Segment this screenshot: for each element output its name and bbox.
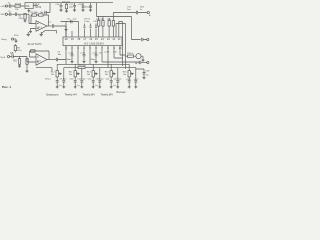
svg-text:A1,A2 TL072: A1,A2 TL072 xyxy=(28,43,43,46)
capacitor C10t xyxy=(95,24,97,28)
capacitor C13 under IC xyxy=(83,50,86,62)
svg-text:10к: 10к xyxy=(69,74,72,76)
ground xyxy=(116,87,119,89)
capacitor C18r right xyxy=(143,69,146,78)
op-amp U A1 box xyxy=(25,3,33,9)
ground xyxy=(110,87,113,89)
wire xyxy=(13,5,25,7)
resistor R21 xyxy=(98,21,100,27)
svg-text:10к: 10к xyxy=(87,74,90,76)
wire xyxy=(14,44,16,52)
wire R2 leads xyxy=(19,57,21,67)
svg-text:14: 14 xyxy=(101,37,104,41)
resistor R10 feedback xyxy=(31,50,36,52)
node output XS4 xyxy=(147,38,149,40)
svg-text:+C17: +C17 xyxy=(134,79,140,81)
node XS2 input terminal xyxy=(5,13,7,15)
terminal GND mid left xyxy=(11,38,13,40)
svg-text:18: 18 xyxy=(77,37,80,41)
ground xyxy=(134,87,137,89)
capacitor R15b xyxy=(116,81,119,87)
wire A2 output chain xyxy=(47,59,56,61)
ground xyxy=(24,19,27,22)
svg-text:470к: 470к xyxy=(17,50,21,52)
wire xyxy=(113,13,132,19)
svg-text:11: 11 xyxy=(118,37,121,41)
svg-text:Тембр ВЧ: Тембр ВЧ xyxy=(101,93,113,97)
wire pot stem and wiper xyxy=(75,64,79,79)
wire xyxy=(136,68,144,69)
wire pin drops to bus xyxy=(78,50,140,68)
wire to XS4 xyxy=(132,17,141,40)
svg-text:A1.1: A1.1 xyxy=(38,26,43,29)
ground xyxy=(29,32,32,34)
potentiometer R12 volume xyxy=(56,71,58,77)
ground xyxy=(80,87,83,89)
resistor R17 xyxy=(78,66,85,68)
svg-text:1мк: 1мк xyxy=(127,9,131,11)
svg-text:+C12: +C12 xyxy=(92,52,98,54)
ground xyxy=(74,87,77,89)
resistor R8 left mid xyxy=(14,46,16,51)
wire A2 feedback xyxy=(30,51,50,60)
ground xyxy=(82,10,85,12)
svg-text:470к: 470к xyxy=(14,35,18,37)
ground xyxy=(73,10,76,12)
svg-text:R18 1к: R18 1к xyxy=(127,53,134,55)
wire xyxy=(7,5,9,7)
svg-text:C13 1мк: C13 1мк xyxy=(96,79,104,81)
svg-text:R2: R2 xyxy=(14,59,18,63)
svg-text:+C18: +C18 xyxy=(78,4,84,6)
wire output A1.1 xyxy=(47,25,52,27)
svg-text:A1.2: A1.2 xyxy=(35,3,40,6)
svg-text:10мк: 10мк xyxy=(67,59,72,61)
svg-text:20: 20 xyxy=(65,37,68,41)
svg-text:10к: 10к xyxy=(51,74,54,76)
svg-text:10к: 10к xyxy=(105,74,108,76)
capacitor C17 xyxy=(73,3,76,10)
wire stub left of volume pot xyxy=(36,68,52,71)
capacitor R14a xyxy=(92,79,95,87)
svg-text:cXS1: cXS1 xyxy=(1,6,7,8)
wire leg xyxy=(135,68,137,81)
wire branch xyxy=(41,3,50,13)
ground xyxy=(92,87,95,89)
svg-text:1мк: 1мк xyxy=(58,54,62,56)
svg-text:Пр.К: Пр.К xyxy=(1,57,6,59)
wire xyxy=(20,57,37,63)
wire xyxy=(14,38,17,40)
ground xyxy=(95,62,98,64)
svg-text:10м: 10м xyxy=(69,7,73,9)
capacitor C3a xyxy=(15,13,25,16)
wire pin1 drop xyxy=(65,46,67,65)
svg-text:10мк: 10мк xyxy=(91,59,96,61)
capacitor C9t xyxy=(90,24,92,28)
resistor R2 xyxy=(18,59,20,65)
capacitor C20 xyxy=(108,21,110,27)
LED HL1 xyxy=(136,54,141,59)
ground xyxy=(18,66,21,68)
svg-text:C15 1мк: C15 1мк xyxy=(114,79,122,81)
svg-text:12: 12 xyxy=(112,37,115,41)
wire R18 HL1 leads xyxy=(126,56,144,60)
svg-text:R5 330к: R5 330к xyxy=(31,12,39,14)
svg-text:17: 17 xyxy=(83,37,86,41)
svg-text:1М: 1М xyxy=(15,9,18,11)
ground xyxy=(27,9,30,13)
wire feedback loop xyxy=(31,15,49,26)
capacitor C8 xyxy=(84,24,86,28)
ground xyxy=(71,62,74,64)
svg-text:100мк: 100мк xyxy=(85,7,91,9)
ground xyxy=(98,87,101,89)
wire leg xyxy=(99,68,101,81)
wire R6 lead xyxy=(26,64,28,71)
node output XS6 xyxy=(147,61,149,63)
capacitor R12a xyxy=(56,79,59,87)
wire leg xyxy=(81,68,83,81)
ground xyxy=(83,62,86,64)
node output XS3 xyxy=(147,11,149,13)
wire bracket mid xyxy=(42,31,57,34)
capacitor C11 under IC xyxy=(71,50,74,62)
op-amp A1.1 input stubs xyxy=(37,24,39,29)
svg-text:C9 1мк: C9 1мк xyxy=(60,79,67,81)
ground stub xyxy=(65,22,68,32)
svg-text:R17 10к: R17 10к xyxy=(78,65,86,67)
svg-text:Тембр ВЧ: Тембр ВЧ xyxy=(83,93,95,97)
svg-text:TL072: TL072 xyxy=(35,7,42,9)
wire leg xyxy=(117,68,119,81)
capacitor R16b xyxy=(134,81,137,87)
capacitor R11a xyxy=(74,79,77,87)
svg-text:A3 LM1036N: A3 LM1036N xyxy=(84,42,104,46)
svg-text:1мк: 1мк xyxy=(73,18,77,20)
ground xyxy=(143,78,146,80)
svg-text:470к: 470к xyxy=(19,18,23,20)
resistor R6 xyxy=(26,59,28,65)
wire xyxy=(33,5,38,7)
wire C20 leads xyxy=(109,18,113,37)
potentiometer R15 treble2 xyxy=(110,71,112,77)
ground xyxy=(26,71,29,73)
capacitor C6t xyxy=(71,20,72,23)
wire R21 R22 leads xyxy=(99,17,103,38)
wire to DA3 xyxy=(65,26,67,37)
svg-text:10к: 10к xyxy=(123,74,126,76)
resistor R1 xyxy=(15,5,20,7)
wire pin18 top xyxy=(61,21,79,23)
IC top pin stubs xyxy=(66,22,96,38)
op-amp A2.1 xyxy=(36,54,47,65)
svg-text:Громкость: Громкость xyxy=(46,93,59,97)
ground xyxy=(56,87,59,89)
ground xyxy=(60,10,63,12)
svg-text:C8 C9: C8 C9 xyxy=(84,18,91,20)
svg-text:VD1,2: VD1,2 xyxy=(45,79,52,81)
IC bottom pin stubs xyxy=(66,46,120,50)
svg-text:0,1мк: 0,1мк xyxy=(84,21,89,23)
capacitor C7 xyxy=(52,24,66,27)
resistor R18 xyxy=(128,55,134,57)
wire pot stem and wiper xyxy=(111,64,115,79)
wire pot stem and wiper xyxy=(57,64,61,79)
capacitor C16 xyxy=(60,3,63,10)
ground xyxy=(62,87,65,89)
capacitor C4 xyxy=(56,58,66,61)
wire bus right side xyxy=(123,22,126,70)
svg-text:C11 1мк: C11 1мк xyxy=(78,79,86,81)
wire pot stem and wiper xyxy=(129,64,133,79)
svg-text:Вход: Вход xyxy=(2,39,8,41)
resistor R22 xyxy=(102,21,104,27)
capacitor R12b xyxy=(62,81,65,87)
ground top B xyxy=(40,32,43,36)
resistor R5 feedback xyxy=(32,14,36,16)
resistor R4 xyxy=(24,14,26,20)
capacitor C5a xyxy=(44,11,46,14)
wire xyxy=(25,14,36,23)
wire R20 leads xyxy=(66,3,68,11)
ground top A xyxy=(27,32,30,36)
op-amp A1.1 xyxy=(36,21,47,31)
wire outputs right xyxy=(116,22,126,38)
capacitor C3 feedback xyxy=(39,14,43,16)
capacitor C5 xyxy=(10,55,20,58)
IC DA3 LM1036N box xyxy=(63,37,122,46)
potentiometer R16 balance xyxy=(128,71,130,77)
svg-text:1к: 1к xyxy=(140,9,142,11)
node XS1 input terminal xyxy=(5,5,7,7)
svg-text:R1 1М: R1 1М xyxy=(15,3,21,5)
capacitor C19t xyxy=(89,3,92,10)
capacitor C1 xyxy=(10,4,14,7)
capacitor R16a xyxy=(128,79,131,87)
op-amp A2.1 input stubs xyxy=(37,57,39,62)
resistor R20 xyxy=(65,4,67,9)
svg-text:R21 R22: R21 R22 xyxy=(96,19,105,21)
svg-text:Рис. 1: Рис. 1 xyxy=(2,85,11,89)
wire pot stem bus xyxy=(57,63,129,65)
capacitor R14b xyxy=(98,81,101,87)
capacitor R15a xyxy=(110,79,113,87)
svg-text:Тембр НЧ: Тембр НЧ xyxy=(65,93,78,97)
svg-text:A2.1: A2.1 xyxy=(37,60,42,63)
ground xyxy=(15,39,18,43)
wire output row bottom right xyxy=(140,61,147,64)
svg-text:+C16: +C16 xyxy=(126,79,132,81)
ground xyxy=(142,60,145,62)
capacitor C19o xyxy=(132,11,147,14)
svg-text:+C11: +C11 xyxy=(80,52,86,54)
wire xyxy=(31,29,37,32)
svg-text:16: 16 xyxy=(89,37,92,41)
ground xyxy=(65,11,68,13)
wire right top xyxy=(97,3,132,17)
wire top power rail xyxy=(33,2,113,4)
ground xyxy=(89,10,92,12)
svg-text:+C10: +C10 xyxy=(68,52,74,54)
svg-text:Баланс: Баланс xyxy=(117,90,127,94)
capacitor C19b under IC xyxy=(95,50,98,62)
svg-text:DA: DA xyxy=(26,5,30,8)
node input XS5 terminal xyxy=(7,55,9,57)
wire xyxy=(13,13,15,15)
capacitor C18 xyxy=(82,3,85,10)
svg-text:+C14: +C14 xyxy=(104,52,110,54)
svg-text:19: 19 xyxy=(71,37,74,41)
ground xyxy=(128,87,131,89)
wire leg xyxy=(63,68,65,81)
wire pot stem and wiper xyxy=(93,64,97,79)
capacitor C2 xyxy=(7,13,13,16)
wire pot leg bus xyxy=(64,67,136,69)
svg-text:15: 15 xyxy=(95,37,98,41)
capacitor C20b xyxy=(112,21,114,27)
capacitor R11b xyxy=(80,81,83,87)
potentiometer R14 treble xyxy=(92,71,94,77)
svg-text:13: 13 xyxy=(107,37,110,41)
potentiometer R11 bass xyxy=(74,71,76,77)
capacitor C22b xyxy=(142,38,147,41)
